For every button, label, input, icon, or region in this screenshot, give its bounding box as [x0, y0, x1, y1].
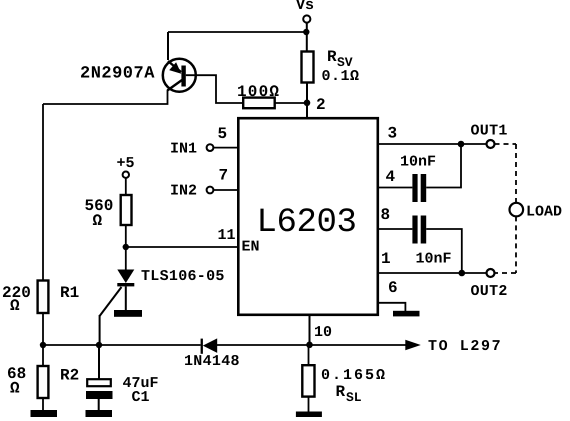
svg-text:LOAD: LOAD: [526, 203, 562, 220]
wire 560 to EN node: [125, 225, 127, 270]
wire R2 stem: [42, 345, 44, 366]
svg-text:IN1: IN1: [170, 140, 197, 157]
wire pin 10 stem: [310, 315, 333, 345]
resistor 100ohm: [237, 83, 280, 108]
ground below R2: [31, 410, 58, 417]
svg-text:Ω: Ω: [93, 212, 103, 230]
wire 100ohm to node 2: [275, 102, 307, 104]
node +5 terminal: [117, 155, 135, 178]
wire pin 8 to cap: [378, 206, 412, 229]
svg-text:11: 11: [218, 227, 236, 244]
svg-text:10nF: 10nF: [400, 154, 436, 171]
node IN1 terminal pin 5: [170, 125, 227, 157]
wire cap up to pin3 line: [426, 144, 461, 188]
node IN2 terminal pin 7: [170, 167, 228, 200]
node OUT1 terminal: [471, 123, 508, 148]
svg-text:C1: C1: [132, 389, 150, 406]
capacitor 10nF lower: [412, 216, 451, 268]
svg-text:4: 4: [386, 168, 396, 186]
svg-text:IN2: IN2: [170, 183, 197, 200]
resistor RSL 0.165ohm: [302, 365, 387, 405]
svg-text:L6203: L6203: [257, 204, 357, 242]
svg-text:100Ω: 100Ω: [237, 83, 280, 101]
node junction pin 10: [306, 342, 313, 349]
wire emitter stem: [167, 32, 169, 60]
wire collector down and left to left rail: [43, 90, 168, 104]
svg-text:OUT2: OUT2: [471, 283, 508, 300]
svg-text:TLS106-05: TLS106-05: [141, 268, 225, 285]
node junction pin3/cap: [458, 141, 465, 148]
capacitor C1 47uF: [86, 345, 159, 410]
svg-text:2N2907A: 2N2907A: [80, 65, 155, 84]
wire pin 6 to ground: [378, 279, 405, 311]
op-amp U1 L6203 IC body: [238, 118, 377, 315]
svg-text:10: 10: [314, 324, 332, 341]
ground below C1: [86, 410, 113, 417]
wire dashed load to OUT2: [515, 216, 517, 273]
node junction Vs: [303, 29, 309, 35]
wire Vs stem down to junction: [306, 23, 308, 52]
ground below TLS106-05: [114, 310, 142, 317]
transistor Q1 2N2907A: [163, 59, 196, 92]
svg-text:Vs: Vs: [296, 0, 314, 14]
thyristor TLS106-05: [100, 268, 225, 316]
wire top rail to transistor emitter: [168, 31, 306, 33]
node OUT2 terminal: [471, 269, 508, 300]
svg-text:3: 3: [388, 125, 398, 143]
svg-text:R1: R1: [60, 284, 79, 302]
wire EN to IC pin 11: [126, 246, 238, 248]
node LOAD: [510, 203, 563, 221]
wire left rail down to R1: [42, 104, 44, 281]
wire cap down to pin1 line: [426, 229, 462, 273]
svg-text:2: 2: [316, 96, 326, 114]
wire dashed OUT1 to load: [495, 143, 517, 145]
svg-text:1N4148: 1N4148: [184, 353, 240, 370]
wire pin 3 to OUT1: [378, 125, 487, 145]
svg-text:OUT1: OUT1: [471, 123, 508, 140]
resistor R1 220ohm: [2, 281, 79, 316]
wire pin 1 to OUT2: [378, 250, 487, 273]
wire R1 to bottom rail: [42, 313, 44, 345]
wire IN2 to IC: [213, 189, 238, 191]
svg-text:Ω: Ω: [10, 379, 20, 397]
svg-text:0.1Ω: 0.1Ω: [322, 68, 360, 85]
svg-text:EN: EN: [242, 239, 260, 256]
arrow TO L297: [405, 338, 502, 355]
node junction C1: [96, 342, 102, 348]
node junction pin1/cap: [459, 270, 466, 277]
svg-text:Ω: Ω: [10, 297, 20, 315]
svg-text:TO L297: TO L297: [428, 338, 502, 355]
svg-text:R: R: [336, 383, 346, 401]
node 2 junction: [304, 96, 326, 114]
wire RSV to node 2 and into IC pin 2: [306, 83, 308, 119]
svg-text:SL: SL: [346, 390, 362, 405]
svg-text:5: 5: [218, 125, 228, 143]
svg-text:6: 6: [388, 279, 398, 297]
wire IN1 to IC: [213, 147, 238, 149]
node Vs terminal: [296, 0, 314, 23]
ground pin 6: [393, 311, 420, 317]
resistor 560ohm: [85, 195, 132, 230]
svg-text:10nF: 10nF: [416, 251, 452, 268]
resistor R2 68ohm: [7, 365, 79, 398]
wire bottom rail: [43, 344, 201, 346]
node EN junction pin 11: [123, 227, 236, 250]
ground below RSL: [296, 412, 322, 418]
wire +5 to 560: [125, 178, 127, 195]
wire pin 4 to cap: [378, 168, 412, 188]
wire gate down to bottom rail: [99, 315, 101, 345]
svg-text:R: R: [327, 48, 337, 66]
svg-text:1: 1: [381, 250, 391, 268]
wire RSL stems: [308, 345, 310, 365]
svg-text:7: 7: [219, 167, 229, 185]
svg-text:+5: +5: [117, 155, 135, 172]
svg-text:R2: R2: [60, 366, 79, 384]
node junction left rail: [40, 342, 46, 348]
svg-text:0.165Ω: 0.165Ω: [321, 367, 387, 384]
resistor RSV 0.1ohm: [302, 48, 360, 85]
wire base right then down to 100 ohm: [186, 75, 243, 103]
svg-text:8: 8: [381, 206, 391, 224]
capacitor 10nF upper: [400, 154, 436, 203]
diode D1 1N4148: [184, 338, 240, 370]
